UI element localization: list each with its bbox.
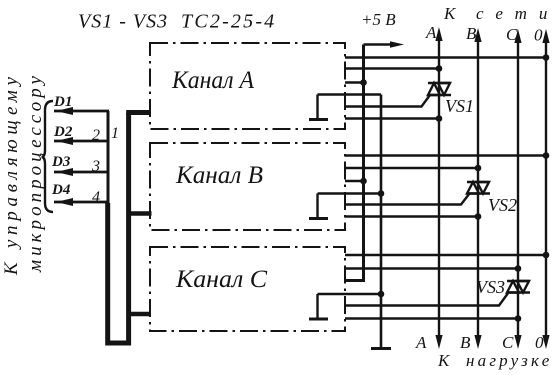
wire A gate bbox=[345, 95, 430, 107]
wire C transistor common bbox=[318, 293, 382, 295]
arrow D4 bbox=[56, 198, 73, 206]
phase line C upper bbox=[517, 35, 519, 281]
transistor channel B bbox=[309, 194, 328, 219]
phase line B lower bbox=[477, 194, 479, 338]
svg-text:А: А bbox=[415, 333, 427, 352]
svg-text:2: 2 bbox=[92, 127, 100, 144]
node B-phase bbox=[475, 165, 482, 172]
wire A to phase A below VS1 bbox=[345, 117, 439, 119]
svg-text:В: В bbox=[466, 24, 477, 43]
node C common bbox=[378, 291, 385, 298]
svg-text:VS2: VS2 bbox=[488, 195, 517, 215]
arrow mains C bbox=[514, 29, 521, 43]
node A below VS1 bbox=[436, 115, 443, 122]
wire C to 0 bbox=[345, 254, 546, 256]
arrow load B bbox=[474, 335, 481, 349]
wire A to phase A bbox=[345, 67, 439, 69]
svg-text:К управляющему: К управляющему bbox=[1, 76, 22, 276]
transistor channel A bbox=[309, 95, 328, 120]
node A-phase bbox=[436, 65, 443, 72]
triac VS1 bbox=[428, 83, 451, 95]
wire B to phase B below VS2 bbox=[345, 215, 478, 217]
transistor channel C bbox=[309, 294, 328, 319]
svg-text:К: К bbox=[437, 351, 451, 370]
+5V rail bbox=[345, 45, 364, 281]
arrow load A bbox=[435, 335, 442, 349]
svg-text:сети: сети bbox=[476, 4, 559, 23]
wire B to 0 bbox=[345, 154, 546, 156]
svg-text:микропроцессору: микропроцессору bbox=[25, 75, 46, 273]
wire A to 0 bbox=[345, 56, 546, 58]
phase line C lower bbox=[517, 293, 519, 338]
wire bus top bar to box A bbox=[126, 110, 151, 115]
phase line A upper bbox=[438, 33, 440, 83]
wire D1 bbox=[54, 110, 109, 113]
phase line B upper bbox=[477, 34, 479, 182]
svg-text:VS1: VS1 bbox=[445, 96, 474, 116]
svg-text:нагрузке: нагрузке bbox=[466, 351, 552, 370]
wire B transistor common bbox=[318, 192, 382, 194]
triac VS3 bbox=[507, 281, 530, 293]
wire C to phase C below VS3 bbox=[345, 317, 518, 319]
wire bus bottom bar bbox=[106, 341, 132, 346]
node B-0 bbox=[543, 152, 550, 159]
wire bus stub to box B bbox=[128, 211, 152, 216]
svg-text:С: С bbox=[506, 25, 518, 44]
svg-text:А: А bbox=[425, 23, 437, 42]
svg-text:К: К bbox=[443, 4, 457, 23]
wire C to phase C bbox=[345, 267, 518, 269]
svg-text:D4: D4 bbox=[51, 182, 71, 198]
wire B to phase B bbox=[345, 167, 478, 169]
svg-text:ТС2-25-4: ТС2-25-4 bbox=[181, 11, 276, 33]
node C-phase bbox=[515, 265, 522, 272]
svg-text:D3: D3 bbox=[51, 154, 71, 170]
svg-text:3: 3 bbox=[91, 158, 100, 175]
arrow mains B bbox=[474, 28, 481, 42]
node C-0 bbox=[543, 252, 550, 259]
ground bbox=[371, 347, 391, 350]
phase line A lower bbox=[438, 95, 440, 337]
wire bus stub to box C bbox=[128, 312, 150, 317]
arrow D2 bbox=[56, 137, 73, 145]
svg-text:В: В bbox=[460, 333, 471, 352]
svg-text:Канал С: Канал С bbox=[175, 266, 267, 293]
wire A transistor common bbox=[318, 93, 382, 95]
brace for D lines bbox=[42, 101, 54, 212]
svg-text:4: 4 bbox=[92, 189, 100, 206]
arrow load 0 bbox=[542, 335, 549, 349]
common rail to ground bbox=[380, 95, 383, 349]
wire C gate bbox=[345, 293, 509, 306]
wire bus riser bbox=[126, 113, 131, 346]
neutral line 0 bbox=[545, 35, 547, 337]
triac VS2 bbox=[467, 182, 490, 194]
svg-text:Канал А: Канал А bbox=[171, 67, 255, 94]
arrow load C bbox=[514, 335, 521, 349]
wire B to +5V bbox=[345, 180, 364, 182]
wire B gate bbox=[345, 194, 470, 205]
arrow D3 bbox=[56, 168, 73, 176]
svg-text:1: 1 bbox=[111, 125, 119, 142]
svg-text:0: 0 bbox=[534, 26, 543, 45]
svg-text:+5 В: +5 В bbox=[361, 10, 396, 29]
node A-0 bbox=[543, 54, 550, 61]
wire bus vertical from D inputs bbox=[107, 111, 110, 204]
svg-text:VS1 - VS3: VS1 - VS3 bbox=[78, 11, 168, 33]
wire bus thick lower segment bbox=[105, 203, 110, 346]
wire A to +5V bbox=[345, 81, 364, 83]
svg-text:D2: D2 bbox=[53, 124, 73, 140]
svg-text:С: С bbox=[502, 333, 514, 352]
node B common bbox=[378, 190, 385, 197]
svg-text:VS3: VS3 bbox=[476, 277, 505, 297]
svg-text:0: 0 bbox=[535, 333, 544, 352]
svg-text:Канал В: Канал В bbox=[175, 162, 263, 189]
node B below VS2 bbox=[475, 213, 482, 220]
arrow mains 0 bbox=[542, 29, 549, 43]
node C below VS3 bbox=[515, 315, 522, 322]
box Канал C bbox=[150, 247, 345, 331]
arrow +5V bbox=[390, 41, 404, 48]
box Канал B bbox=[150, 143, 345, 230]
wire D3 bbox=[54, 171, 109, 174]
box Канал А bbox=[150, 43, 345, 129]
node B +5V bbox=[360, 178, 367, 185]
arrow D1 bbox=[56, 107, 73, 115]
svg-text:D1: D1 bbox=[53, 94, 72, 110]
node A +5V bbox=[360, 79, 367, 86]
arrow mains A bbox=[435, 27, 442, 41]
wire D4 bbox=[54, 201, 109, 204]
wire D2 bbox=[54, 140, 109, 143]
+5V arrow line bbox=[364, 43, 397, 45]
